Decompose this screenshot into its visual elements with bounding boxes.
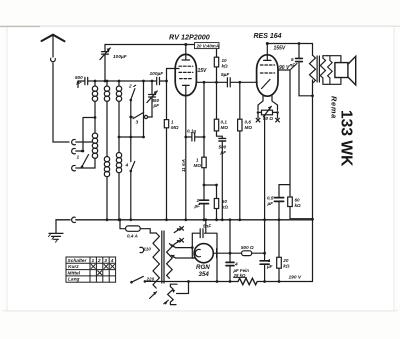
svg-text:5µF: 5µF <box>221 72 230 78</box>
svg-text:4: 4 <box>125 163 129 169</box>
svg-text:RES 164: RES 164 <box>254 33 282 40</box>
svg-text:133 WK: 133 WK <box>338 110 355 167</box>
svg-text:µF: µF <box>267 201 274 206</box>
svg-text:RV 12P2000: RV 12P2000 <box>169 33 210 42</box>
svg-text:1: 1 <box>92 258 95 264</box>
svg-text:0,1µ: 0,1µ <box>187 129 196 134</box>
svg-text:3: 3 <box>136 120 139 126</box>
svg-text:RGN: RGN <box>196 264 210 271</box>
svg-text:kΩ: kΩ <box>222 205 229 210</box>
svg-text:Rema: Rema <box>330 96 339 119</box>
svg-text:500: 500 <box>219 145 227 150</box>
svg-text:kΩ: kΩ <box>295 203 302 208</box>
svg-text:100µF: 100µF <box>150 71 165 77</box>
svg-text:MΩ: MΩ <box>171 125 179 130</box>
svg-text:500 Ω: 500 Ω <box>241 245 254 250</box>
svg-text:0,1: 0,1 <box>221 120 228 125</box>
svg-text:28 kΩ: 28 kΩ <box>233 273 247 278</box>
svg-text:1: 1 <box>171 120 174 125</box>
svg-text:90 V: 90 V <box>279 65 290 71</box>
svg-text:100µF: 100µF <box>113 54 128 60</box>
svg-text:nF: nF <box>290 63 296 68</box>
svg-text:5nF: 5nF <box>203 224 211 229</box>
svg-text:0,6: 0,6 <box>245 120 252 125</box>
svg-text:20 V;40mA: 20 V;40mA <box>196 43 219 48</box>
svg-text:Kurz: Kurz <box>68 264 79 270</box>
svg-text:Lang: Lang <box>68 277 80 283</box>
svg-text:50: 50 <box>222 199 228 204</box>
svg-text:µF: µF <box>266 264 273 269</box>
svg-text:pF: pF <box>76 80 83 85</box>
svg-text:50 Ω: 50 Ω <box>263 116 273 121</box>
svg-text:MΩ: MΩ <box>221 125 229 130</box>
svg-text:pF: pF <box>153 103 160 108</box>
svg-text:pF: pF <box>220 150 227 155</box>
svg-text:1: 1 <box>268 258 271 263</box>
svg-text:2: 2 <box>128 84 132 90</box>
svg-text:60: 60 <box>295 198 301 203</box>
svg-text:MΩ: MΩ <box>245 125 253 130</box>
svg-text:110: 110 <box>144 247 152 252</box>
svg-text:220: 220 <box>146 277 155 282</box>
svg-text:5: 5 <box>291 57 294 62</box>
svg-text:155V: 155V <box>274 46 286 52</box>
svg-text:µF: µF <box>194 204 201 209</box>
svg-text:3: 3 <box>104 258 107 264</box>
svg-text:0,4 A: 0,4 A <box>127 234 138 239</box>
svg-text:kΩ: kΩ <box>222 64 229 69</box>
svg-text:1: 1 <box>77 155 80 161</box>
svg-text:10: 10 <box>222 58 228 63</box>
svg-text:4: 4 <box>110 258 114 264</box>
svg-text:11 mA: 11 mA <box>181 159 186 172</box>
svg-text:Mittel: Mittel <box>68 270 81 276</box>
svg-text:kΩ: kΩ <box>283 264 290 269</box>
svg-text:15V: 15V <box>198 68 208 74</box>
svg-text:4: 4 <box>234 262 238 268</box>
svg-text:1: 1 <box>196 158 199 163</box>
svg-text:MΩ: MΩ <box>194 163 202 168</box>
svg-text:190 V: 190 V <box>289 275 302 281</box>
svg-text:Schalter: Schalter <box>68 258 88 264</box>
svg-text:1: 1 <box>197 198 200 203</box>
svg-text:354: 354 <box>199 271 210 278</box>
svg-text:20: 20 <box>282 258 289 263</box>
svg-text:2: 2 <box>97 258 101 264</box>
svg-text:0,5: 0,5 <box>267 196 274 201</box>
